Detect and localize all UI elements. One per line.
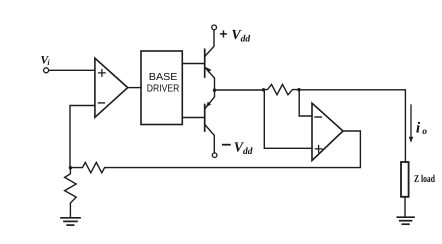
wire U2 output feedback loop	[107, 131, 361, 168]
op-amp U1	[95, 58, 128, 117]
resistor R feedback	[70, 162, 106, 172]
svg-text:o: o	[422, 127, 427, 137]
transistor Q2	[205, 90, 215, 153]
ground left	[61, 218, 80, 225]
node Vi input terminal	[44, 68, 49, 73]
label io	[416, 120, 427, 138]
load Z	[401, 162, 409, 197]
current arrow io	[410, 105, 412, 139]
wire output node to sense resistor	[215, 89, 264, 91]
wire base of Q2	[182, 117, 204, 119]
wire left of resistor down to U2 + input	[264, 90, 312, 149]
svg-text:dd: dd	[241, 35, 251, 45]
resistor R1 to ground	[65, 168, 77, 217]
wire sense resistor to load	[299, 90, 405, 162]
svg-text:Z load: Z load	[414, 174, 435, 185]
svg-text:DRIVER: DRIVER	[147, 84, 180, 95]
svg-text:i: i	[416, 120, 421, 137]
label Vi	[41, 55, 51, 68]
wire Vi to op-amp + input	[49, 69, 95, 71]
wire right of resistor down to U2 - input	[299, 90, 312, 116]
transistor Q1	[205, 30, 215, 89]
wire op-amp U1 output to base driver	[128, 87, 141, 89]
svg-text:dd: dd	[243, 147, 253, 157]
label Z load	[414, 174, 435, 185]
label -Vdd	[223, 144, 230, 146]
junction dot right of sense resistor	[297, 88, 300, 91]
junction dot left of sense resistor	[262, 88, 265, 91]
ground right	[397, 217, 414, 224]
power terminal +Vdd	[212, 25, 217, 30]
power terminal -Vdd	[212, 153, 217, 158]
junction dot output node	[213, 89, 216, 92]
wire U1 inverting input feedback (down to node A)	[70, 106, 95, 168]
resistor R sense	[264, 84, 300, 94]
op-amp U2	[312, 103, 343, 160]
junction node A	[69, 166, 72, 169]
svg-text:BASE: BASE	[149, 72, 178, 83]
base driver block U3	[141, 51, 182, 125]
wire base of Q1	[182, 63, 204, 65]
label +Vdd	[221, 31, 227, 37]
